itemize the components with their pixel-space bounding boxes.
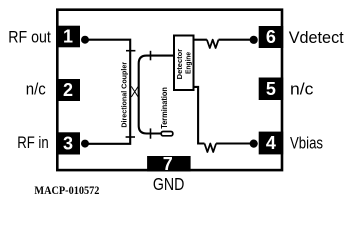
- svg-text:4: 4: [266, 133, 276, 153]
- pin 7 pad (GND paddle): [147, 156, 191, 171]
- node pin6 dot: [250, 36, 258, 44]
- wire R2 to pin4: [216, 142, 253, 144]
- wire R1 to pin6: [219, 39, 254, 41]
- svg-text:n/c: n/c: [26, 80, 46, 99]
- pin 4 pad: [259, 132, 284, 155]
- svg-text:5: 5: [266, 79, 276, 99]
- svg-text:Termination: Termination: [160, 87, 169, 129]
- svg-text:Vbias: Vbias: [290, 133, 323, 152]
- wire detector to R1: [194, 39, 207, 41]
- port tick main line top: [126, 50, 135, 52]
- node pin4 dot: [250, 140, 258, 148]
- svg-text:7: 7: [163, 154, 173, 174]
- termination resistor RT: [161, 132, 173, 136]
- resistor R1 (to Vdetect): [207, 40, 219, 48]
- port tick coupled line top: [150, 51, 152, 61]
- node pin3 dot: [81, 140, 89, 148]
- coupling X mark: [131, 86, 138, 97]
- wire: directional coupler main line pin1 to pin3: [85, 40, 130, 144]
- svg-text:Directional Coupler: Directional Coupler: [120, 62, 129, 128]
- pin 6 pad: [259, 26, 284, 48]
- svg-text:3: 3: [63, 134, 73, 154]
- pin 5 pad: [259, 78, 284, 101]
- package outline U1: [57, 10, 282, 170]
- pin 1 pad: [56, 26, 80, 48]
- node pin1 dot: [81, 36, 89, 44]
- pin 2 pad: [56, 79, 80, 101]
- detector engine box U2: [174, 36, 194, 91]
- port tick coupled line bottom: [150, 128, 152, 138]
- svg-text:RF out: RF out: [8, 28, 51, 47]
- wire detector to R2: [194, 87, 205, 144]
- wire: coupled line to detector and termination: [139, 56, 174, 134]
- svg-text:MACP-010572: MACP-010572: [34, 183, 99, 197]
- port tick main line bottom: [126, 136, 135, 138]
- svg-text:n/c: n/c: [290, 80, 314, 99]
- svg-text:RF in: RF in: [17, 133, 49, 152]
- svg-text:1: 1: [63, 27, 73, 47]
- svg-text:GND: GND: [153, 174, 185, 194]
- resistor R2 (to Vbias): [205, 144, 217, 153]
- svg-text:Vdetect: Vdetect: [289, 28, 344, 47]
- svg-text:6: 6: [266, 27, 276, 47]
- pin 3 pad: [56, 132, 80, 154]
- svg-text:2: 2: [63, 80, 73, 100]
